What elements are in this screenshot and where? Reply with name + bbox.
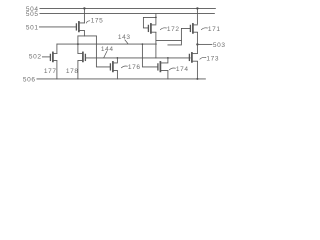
wire 173 source to 506	[196, 61, 198, 79]
wire 502 to gate of 177	[42, 56, 50, 58]
wire drain of 172 down to node 144	[155, 32, 157, 58]
label 175	[91, 18, 104, 25]
svg-text:503: 503	[213, 42, 226, 49]
label 171 leader	[201, 28, 207, 30]
node 502 label	[29, 53, 42, 60]
junction dot	[155, 17, 157, 19]
wire node 143	[57, 43, 156, 45]
svg-text:173: 173	[206, 55, 219, 62]
label 174	[176, 66, 189, 73]
label 173 leader	[200, 57, 206, 59]
label 171	[208, 26, 221, 33]
label 144 leader	[104, 51, 107, 57]
wire 143 corner down to drain of 177	[56, 44, 58, 53]
wire stub to 503	[197, 43, 212, 45]
wire 175 source to 178 drain / node 143	[77, 36, 79, 54]
node 505 label	[26, 11, 39, 18]
wire 505 to drain of 172	[155, 14, 157, 24]
wire jog down to gate of 176	[96, 36, 110, 67]
svg-text:143: 143	[118, 34, 131, 41]
wire 178 source to 506	[77, 61, 79, 79]
svg-text:171: 171	[208, 26, 221, 33]
junction dot	[167, 57, 169, 59]
wire 504 to drain of 171	[196, 8, 198, 24]
junction dot	[142, 43, 144, 45]
wire node 144	[85, 57, 190, 59]
wire 143 down to gate of 174	[142, 44, 157, 67]
label 176	[128, 64, 141, 71]
junction dot	[117, 57, 119, 59]
label 172 leader	[160, 28, 166, 30]
svg-text:502: 502	[29, 53, 42, 60]
wire source jog of 175	[78, 35, 97, 37]
node 501 label	[26, 24, 39, 31]
svg-text:505: 505	[26, 11, 39, 18]
label 173	[206, 55, 219, 62]
label 177	[44, 68, 57, 75]
node 506 label	[23, 76, 36, 83]
junction dot	[196, 7, 198, 9]
label 172	[167, 26, 180, 33]
svg-text:175: 175	[91, 18, 104, 25]
label 174 leader	[169, 68, 175, 70]
label 175 leader	[86, 21, 89, 23]
label 143 leader	[125, 40, 128, 44]
wire mirror link to gate of 171	[156, 28, 190, 40]
label 176 leader	[121, 66, 127, 68]
transistor 178 mirrored	[78, 52, 86, 61]
transistor 173	[189, 53, 197, 62]
wire 504 to drain of 175	[83, 8, 85, 23]
junction dot	[83, 7, 85, 9]
svg-text:174: 174	[176, 66, 189, 73]
wire 176 source to 506	[116, 71, 118, 79]
transistor 172	[148, 24, 156, 33]
transistor 175	[76, 22, 84, 36]
transistor 176	[110, 58, 117, 72]
node 503 label	[213, 42, 226, 49]
wire 171 source down to output node	[196, 32, 198, 53]
label 144	[101, 46, 114, 53]
junction dot on 506	[196, 78, 198, 80]
label 143	[118, 34, 131, 41]
transistor 174	[158, 58, 168, 72]
node 504 label	[26, 6, 39, 13]
wire 505 rail	[40, 13, 215, 15]
transistor 171	[190, 24, 197, 33]
junction dot node 143	[77, 43, 79, 45]
svg-text:501: 501	[26, 24, 39, 31]
wire 506 rail	[37, 78, 206, 80]
svg-text:178: 178	[66, 68, 79, 75]
svg-text:176: 176	[128, 64, 141, 71]
svg-text:144: 144	[101, 46, 114, 53]
svg-text:506: 506	[23, 76, 36, 83]
gate loop of 172	[143, 17, 156, 28]
wire 501 to gate of 175	[39, 26, 76, 28]
wire 174 source to 506	[167, 71, 169, 79]
wire 177 source to 506	[56, 61, 58, 79]
transistor 177	[50, 52, 57, 61]
svg-text:172: 172	[167, 26, 180, 33]
label 178	[66, 68, 79, 75]
wire 504 rail	[40, 7, 216, 9]
junction dot output node	[196, 43, 198, 45]
wire link down to node 144	[168, 40, 182, 45]
svg-text:177: 177	[44, 68, 57, 75]
